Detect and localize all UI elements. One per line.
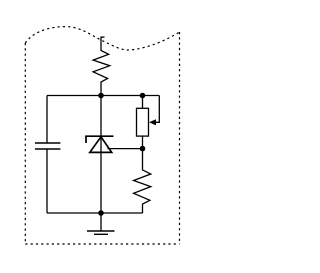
dashed enclosure boundary (wavy top) bbox=[25, 27, 179, 244]
capacitor C1 top plate bbox=[35, 142, 61, 144]
wire: left rail upper (to capacitor) bbox=[46, 96, 48, 144]
enclosure right dashed edge bbox=[179, 32, 181, 244]
wire: left rail lower (capacitor to bottom) bbox=[46, 149, 48, 213]
resistor R2 (lower divider resistor) bbox=[134, 149, 151, 213]
zener D1 anode lead bbox=[100, 152, 102, 213]
wire: wiper feedback (down then left) bbox=[152, 96, 160, 123]
potentiometer P1 bottom lead bbox=[142, 136, 144, 149]
resistor R1 (series input resistor) bbox=[93, 37, 110, 96]
potentiometer wiper arrowhead bbox=[149, 119, 156, 125]
junction node: ground / bottom rail bbox=[98, 210, 104, 216]
wire: bottom horizontal rail bbox=[47, 212, 143, 214]
enclosure wavy top dashed edge bbox=[25, 27, 179, 50]
zener/shunt reference D1 cathode lead (runs through symbol) bbox=[100, 96, 102, 153]
junction node: pot top / top rail bbox=[140, 93, 146, 99]
wire: reference tap (triangle to divider node) bbox=[108, 148, 143, 150]
capacitor C1 bottom plate bbox=[35, 148, 61, 150]
wire: top horizontal rail bbox=[47, 95, 159, 97]
enclosure left dashed edge bbox=[24, 43, 26, 244]
tick at top of R1 lead bbox=[101, 36, 105, 38]
junction node: R1 / top rail bbox=[98, 93, 104, 99]
ground bar 2 bbox=[94, 233, 108, 235]
potentiometer P1 top lead bbox=[142, 96, 144, 109]
potentiometer P1 body bbox=[137, 108, 149, 136]
zener D1 triangle bbox=[90, 137, 112, 153]
enclosure bottom dashed edge bbox=[25, 243, 179, 245]
ground stem bbox=[100, 213, 102, 231]
zener D1 cathode bar with bent end bbox=[86, 136, 114, 143]
junction node: pot bottom / R2 / reference tap bbox=[140, 146, 146, 152]
ground bar 1 bbox=[87, 230, 115, 232]
